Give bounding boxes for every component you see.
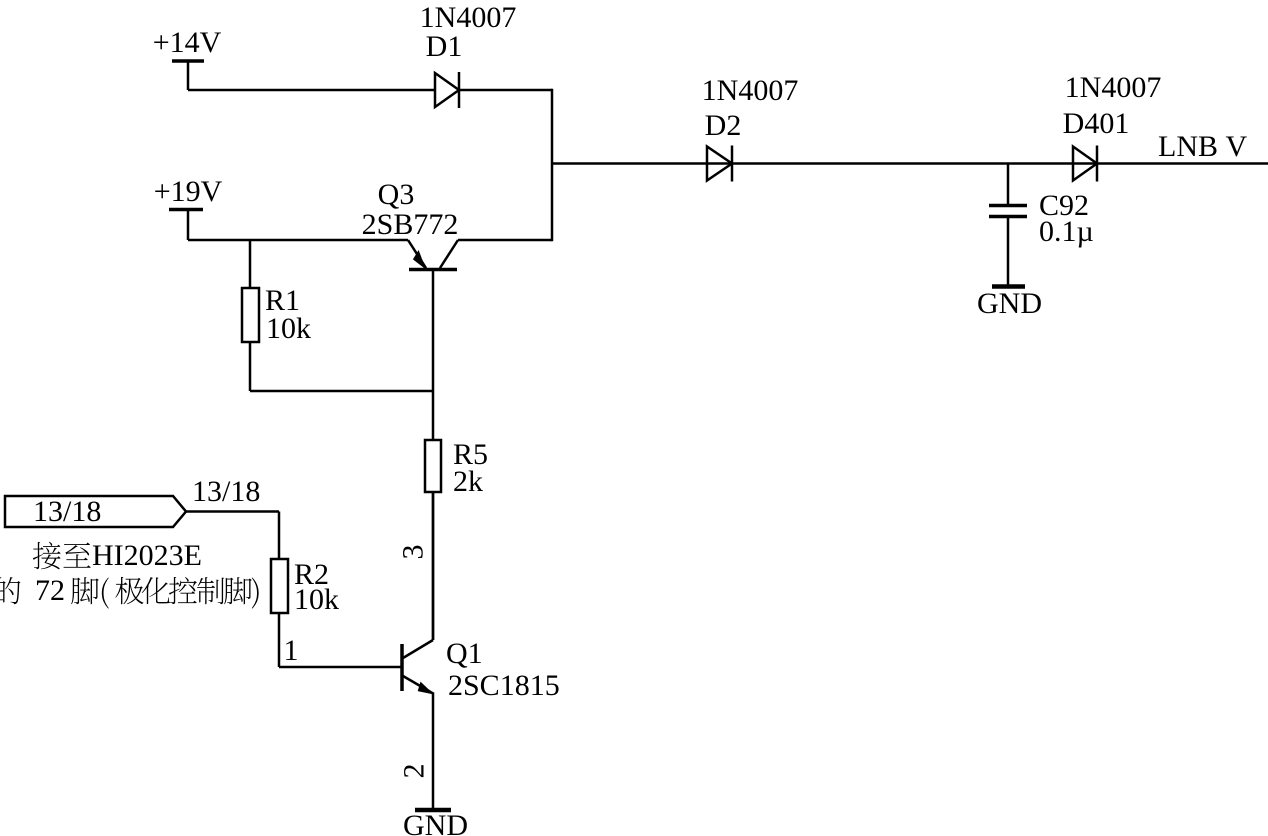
+14V terminal bar bbox=[172, 59, 204, 63]
wire: base wire to Q1 bbox=[279, 666, 402, 669]
svg-text:Q3: Q3 bbox=[378, 178, 415, 211]
svg-text:LNB V: LNB V bbox=[1158, 130, 1248, 163]
ground bar (C92) bbox=[992, 284, 1025, 289]
+19V terminal bar bbox=[169, 208, 203, 212]
text 脚 (line2, second) bbox=[224, 577, 252, 604]
svg-text:13/18: 13/18 bbox=[192, 475, 260, 508]
wire: R1 bottom down bbox=[249, 342, 252, 391]
svg-text:D401: D401 bbox=[1063, 107, 1130, 140]
text 化 (line2) bbox=[142, 577, 170, 604]
resistor R2 bbox=[271, 559, 288, 613]
wire: rail to R1 top bbox=[249, 240, 252, 288]
svg-text:HI2023E: HI2023E bbox=[92, 539, 202, 572]
diode D2 bbox=[707, 146, 732, 182]
svg-text:+19V: +19V bbox=[154, 175, 223, 208]
svg-text:3: 3 bbox=[397, 545, 430, 560]
text 极 (line2) bbox=[115, 577, 143, 604]
text 接 (line1) bbox=[33, 542, 61, 570]
wire: +14V down to top rail bbox=[187, 60, 190, 91]
svg-text:2: 2 bbox=[398, 764, 431, 779]
text 制 (line2) bbox=[197, 577, 224, 604]
svg-text:Q1: Q1 bbox=[446, 637, 483, 670]
wire: Q1 collector up to R5 bbox=[432, 492, 435, 640]
text 的 (line2) bbox=[0, 577, 20, 604]
svg-text:D2: D2 bbox=[705, 109, 742, 142]
svg-text:1N4007: 1N4007 bbox=[702, 74, 799, 107]
wire: R1 bottom horizontal to base line x=433 bbox=[250, 390, 433, 393]
text ) (line2) bbox=[252, 577, 259, 608]
svg-text:1: 1 bbox=[284, 634, 299, 667]
svg-text:2SB772: 2SB772 bbox=[362, 208, 459, 241]
svg-text:0.1µ: 0.1µ bbox=[1039, 215, 1094, 248]
wire: tag tip to corner x=279 bbox=[186, 510, 279, 513]
svg-text:2SC1815: 2SC1815 bbox=[448, 669, 560, 702]
capacitor C92 plates bbox=[989, 206, 1027, 217]
wire: rail down to C92 top plate bbox=[1007, 164, 1010, 206]
resistor R1 bbox=[242, 288, 259, 342]
ground bar (Q1) bbox=[415, 808, 451, 813]
svg-text:10k: 10k bbox=[266, 312, 311, 345]
wire: Q3 collector lead to vertical x=552 bbox=[458, 239, 552, 242]
resistor R5 bbox=[425, 440, 441, 492]
diode D1 bbox=[435, 72, 459, 108]
node tag 13/18 (pennant) bbox=[5, 496, 186, 527]
svg-text:GND: GND bbox=[977, 287, 1042, 320]
wire: top rail y=90 from +14V to D1 anode bbox=[188, 89, 435, 92]
wire: vertical x=552 from y=90 to Q3 collector rail y=240 bbox=[551, 89, 554, 242]
svg-text:+14V: +14V bbox=[153, 26, 222, 59]
wire: Q3 base down to R5 bbox=[432, 270, 435, 441]
svg-text:10k: 10k bbox=[294, 583, 339, 616]
wire: Q1 emitter down to GND bbox=[432, 694, 435, 809]
transistor Q3 (2SB772, PNP) bbox=[408, 240, 458, 270]
text 至 (line1) bbox=[63, 543, 90, 568]
wire: R5 bottom to Q1 collector bbox=[432, 492, 435, 640]
wire: +19V down to rail y=240 bbox=[187, 208, 190, 240]
svg-text:72: 72 bbox=[35, 574, 65, 607]
text 控 (line2) bbox=[169, 577, 197, 604]
wire: R2 bottom to corner bbox=[278, 613, 281, 667]
svg-text:D1: D1 bbox=[426, 30, 463, 63]
wire: D1 cathode to corner x=552 bbox=[459, 89, 552, 92]
svg-text:1N4007: 1N4007 bbox=[1065, 71, 1162, 104]
wire: main output rail y=163.5 to right edge bbox=[552, 162, 1268, 165]
svg-text:GND: GND bbox=[403, 809, 468, 836]
wire: rail y=240 from +19V to Q3 emitter bbox=[188, 239, 408, 242]
transistor Q1 (2SC1815, NPN) bbox=[402, 640, 434, 695]
diode D401 bbox=[1073, 146, 1097, 182]
text ( (line2) bbox=[102, 577, 109, 608]
wire: down to R2 bbox=[278, 512, 281, 560]
wire: C92 bottom plate to GND bbox=[1007, 217, 1010, 287]
svg-text:13/18: 13/18 bbox=[33, 495, 101, 528]
text 脚 (line2) bbox=[71, 577, 99, 604]
svg-text:2k: 2k bbox=[453, 465, 483, 498]
